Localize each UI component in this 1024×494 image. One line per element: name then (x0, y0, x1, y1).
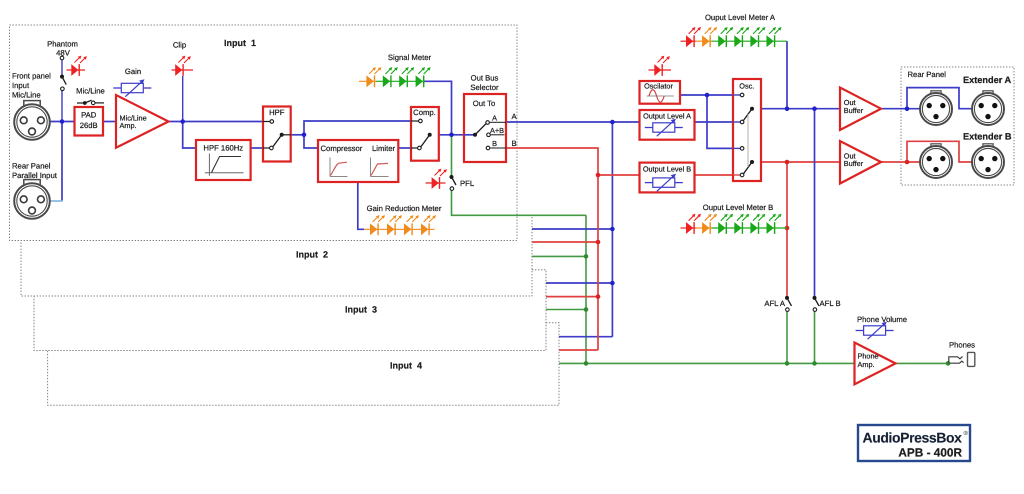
switch S8 AFL A (785, 296, 792, 312)
svg-text:B: B (512, 139, 517, 148)
svg-text:®: ® (964, 430, 969, 437)
op-amp U2 mic/line amp (116, 95, 169, 148)
wire: buffer A to XLR A1 (881, 108, 920, 110)
wire: AFL B switch to green bus (814, 312, 816, 364)
node: comp bypass branch (302, 133, 307, 138)
svg-text:HPF: HPF (269, 108, 285, 117)
svg-text:Phantom: Phantom (47, 40, 78, 49)
switch S7 oscillator insert (733, 79, 761, 181)
wire: PFL tap (green) (451, 135, 453, 177)
wire: HPF 160Hz out to switch contact (251, 147, 263, 149)
wire: clip LED stub (182, 76, 184, 122)
oscillator U5 (640, 81, 681, 104)
meter M1 signal meter (359, 67, 431, 87)
svg-text:Compressor: Compressor (321, 144, 363, 153)
wire: bridge to XLR A2 (907, 88, 972, 109)
wire: oscillator output (680, 94, 740, 96)
wire: phone amp to phones jack (896, 362, 949, 364)
node: oscillator split (705, 93, 710, 98)
node: B bus input2 (596, 240, 601, 245)
svg-text:AFL B: AFL B (820, 299, 841, 308)
wire: oscillator branch to B switch (707, 95, 740, 148)
svg-text:Rear Panel: Rear Panel (12, 162, 51, 171)
svg-text:Mic/Line: Mic/Line (76, 87, 105, 96)
svg-text:Signal Meter: Signal Meter (388, 53, 432, 62)
svg-text:Out To: Out To (473, 99, 496, 108)
svg-text:Amp.: Amp. (120, 121, 137, 130)
wire: input 3 PFL output (546, 309, 586, 311)
meter M2 gain reduction meter (364, 215, 436, 235)
wire: input 2 B output (532, 241, 598, 243)
svg-text:Oscilator: Oscilator (644, 82, 673, 91)
svg-text:Gain Reduction Meter: Gain Reduction Meter (367, 204, 442, 213)
wire: XLR1 to PAD input (50, 121, 75, 123)
svg-text:AudioPressBox: AudioPressBox (863, 430, 963, 446)
wire: green AFL bus vertical (585, 215, 587, 363)
svg-text:Input 4: Input 4 (390, 361, 422, 371)
svg-text:Input 3: Input 3 (345, 305, 377, 315)
svg-text:PFL: PFL (460, 179, 475, 188)
node: green bus bottom (584, 361, 589, 366)
wire: A bus vertical (611, 122, 613, 337)
svg-text:A: A (512, 112, 518, 121)
Input 1 enclosure (10, 25, 518, 241)
wire: input node down to rear XLR level (61, 122, 63, 202)
svg-text:48V: 48V (56, 48, 71, 57)
switch S4 compressor bypass (411, 107, 439, 161)
connector J7 extender B XLR 2 (972, 144, 1004, 178)
connector J6 extender B XLR 1 (920, 144, 952, 178)
compressor/limiter U4 (318, 140, 398, 182)
svg-text:Output Level B: Output Level B (643, 164, 691, 173)
LED D4 oscillator indicator (649, 56, 672, 76)
svg-text:Out Bus: Out Bus (471, 74, 499, 83)
svg-text:Comp.: Comp. (413, 108, 436, 117)
wire: meter A drop (786, 41, 788, 109)
node: A bus input3 (610, 281, 615, 286)
wire: selector B output and B bus (506, 148, 598, 350)
connector J3 phones jack (949, 352, 975, 366)
wire: gain reduction meter feed (358, 182, 364, 229)
node: clip/HPF branch (180, 119, 185, 124)
wire: comp switch pole to out bus selector (430, 134, 475, 136)
svg-text:A: A (492, 114, 497, 123)
node: meter A tap (785, 106, 790, 111)
wire: buffer B to XLR B1 (881, 161, 920, 163)
node: AFL B tap (812, 106, 817, 111)
attenuator U7 output level B (640, 163, 695, 193)
switch S9 AFL B (813, 296, 820, 312)
svg-text:Front panel: Front panel (12, 72, 51, 81)
connector J4 extender A XLR 1 (920, 91, 952, 125)
meter M4 output level meter B (681, 214, 788, 234)
wire: input 2 PFL output (532, 255, 586, 257)
node: AFL A join (785, 361, 790, 366)
node: B feed tap (596, 173, 601, 178)
node: phones tap (946, 361, 951, 366)
switch S5 PFL (450, 175, 457, 190)
connector J5 extender A XLR 2 (972, 91, 1004, 125)
svg-text:Osc.: Osc. (739, 82, 754, 91)
wire: AFL B feed (814, 109, 816, 297)
wire: Output Level B to osc switch (695, 174, 741, 176)
node: green bus input2 (584, 254, 589, 259)
wire: rear XLR parallel link (light blue) (50, 200, 63, 202)
wire: limiter out to comp switch (398, 147, 411, 149)
wire: input 3 A output (546, 282, 612, 284)
svg-text:APB - 400R: APB - 400R (898, 446, 962, 460)
wire: input 4 B output (559, 349, 598, 351)
wire: Output Level A to osc switch (695, 121, 741, 123)
svg-text:Input 1: Input 1 (224, 38, 256, 48)
svg-text:Mic/Line: Mic/Line (12, 91, 41, 100)
wire: comp bypass riser (304, 121, 411, 135)
connector J1 front panel XLR input (14, 101, 50, 140)
node: green bus input3 (584, 307, 589, 312)
LED D2 clip indicator (172, 56, 194, 76)
logo AudioPressBox APB-400R (858, 425, 970, 461)
potentiometer R2 phone volume (856, 322, 894, 340)
svg-text:Output Level A: Output Level A (643, 112, 691, 121)
svg-text:Extender A: Extender A (963, 75, 1012, 85)
svg-text:Amp.: Amp. (858, 360, 875, 369)
svg-text:Parallel Input: Parallel Input (12, 171, 58, 180)
node: XLR B bridge (905, 160, 910, 165)
op-amp U10 phone amp (855, 343, 896, 385)
wire: amp output to HPF bypass contact (169, 121, 264, 123)
svg-text:B: B (492, 139, 497, 148)
wire: osc switch A pole to out buffer A (752, 108, 840, 110)
svg-text:AFL A: AFL A (764, 299, 786, 308)
wire: AFL A switch to green bus (786, 312, 788, 364)
connector J2 rear panel parallel XLR input (14, 180, 50, 219)
Rear Panel enclosure (901, 67, 1014, 185)
svg-text:A+B: A+B (490, 126, 504, 135)
wire: PAD to amp (103, 121, 116, 123)
node: AFL B join (812, 361, 817, 366)
svg-text:Ouput Level Meter A: Ouput Level Meter A (705, 13, 776, 22)
wire: B feed to Output Level B (598, 174, 640, 176)
switch S2 mic/line (77, 100, 104, 105)
LED D1 phantom indicator (67, 56, 87, 76)
node: B bus input3 (596, 294, 601, 299)
meter M3 output level meter A (681, 27, 788, 47)
wire: branch to compressor input (304, 135, 318, 148)
Input 2 enclosure (21, 217, 532, 296)
Input 3 enclosure (34, 270, 546, 351)
svg-text:Gain: Gain (125, 67, 141, 76)
svg-text:Extender B: Extender B (963, 132, 1012, 142)
switch S3 HPF bypass (263, 107, 291, 162)
Input 4 enclosure (48, 323, 559, 406)
node: meter B tap (785, 160, 790, 165)
svg-text:HPF 160Hz: HPF 160Hz (203, 144, 243, 153)
wire: signal meter feed (424, 81, 452, 135)
wire: input 3 B output (546, 296, 598, 298)
filter U3 HPF 160Hz (196, 140, 251, 180)
wire: input 4 A output (559, 336, 612, 338)
wire: PFL switch to green bus (452, 190, 587, 215)
node: meter B row (785, 226, 790, 231)
svg-text:Input: Input (12, 81, 30, 90)
LED D3 PFL indicator (426, 169, 447, 189)
svg-text:Clip: Clip (173, 41, 186, 50)
svg-text:PAD: PAD (81, 111, 97, 120)
svg-text:26dB: 26dB (80, 121, 98, 130)
wire: HPF switch pole out (291, 134, 304, 136)
wire: branch to HPF 160Hz filter (183, 122, 196, 149)
node: A bus input2 (610, 227, 615, 232)
svg-text:Rear Panel: Rear Panel (908, 70, 947, 79)
wire: selector A output to Output Level A (506, 121, 640, 123)
wire: meter B riser and AFL A feed (786, 162, 788, 296)
svg-text:Phones: Phones (949, 341, 975, 350)
wire: osc switch B pole to out buffer B (752, 161, 840, 163)
svg-text:Limiter: Limiter (372, 144, 396, 153)
node: meter/PFL tap (449, 133, 454, 138)
wire: phantom feed upper (61, 60, 63, 77)
switch S1 phantom 48V (60, 56, 66, 90)
svg-text:Ouput Level Meter B: Ouput Level Meter B (703, 203, 774, 212)
wire: input 2 A output (532, 228, 612, 230)
node: input parallel junction (60, 119, 65, 124)
op-amp U9 out buffer B (840, 141, 881, 184)
attenuator U1 PAD 26dB (75, 107, 104, 136)
attenuator U6 output level A (640, 110, 695, 140)
op-amp U8 out buffer A (840, 88, 881, 131)
potentiometer R1 gain (113, 79, 151, 97)
svg-text:Input 2: Input 2 (296, 250, 328, 260)
node: XLR A bridge (905, 106, 910, 111)
wire: headphone bus to phone amp (559, 362, 855, 364)
svg-text:Phone Volume: Phone Volume (857, 315, 907, 324)
svg-text:Buffer: Buffer (844, 106, 864, 115)
svg-text:Selector: Selector (470, 83, 499, 92)
svg-text:Buffer: Buffer (844, 159, 864, 168)
wire: phantom switch to input node (61, 91, 63, 122)
selector S6 out bus (464, 94, 506, 162)
wire: bridge to XLR B2 (907, 141, 972, 162)
node: A bus top (610, 120, 615, 125)
